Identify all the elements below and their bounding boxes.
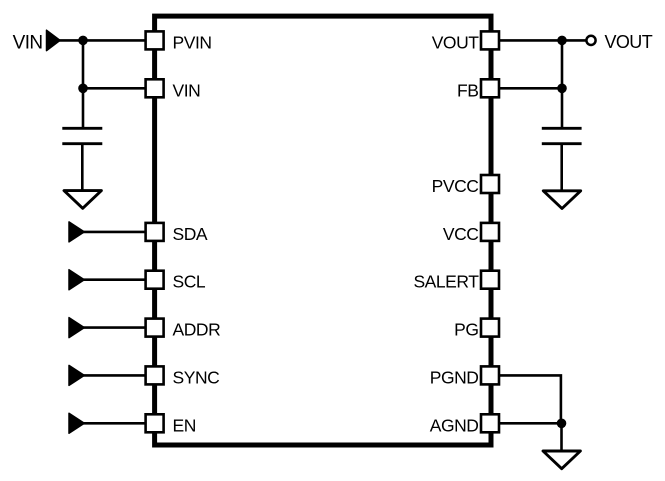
svg-text:PVIN: PVIN xyxy=(173,32,212,52)
wire xyxy=(83,374,146,377)
capacitor C2 xyxy=(542,128,582,143)
pin VOUT xyxy=(432,31,499,52)
svg-text:PG: PG xyxy=(454,320,478,340)
capacitor C1 xyxy=(62,128,102,143)
pin VIN xyxy=(146,79,201,100)
svg-text:PGND: PGND xyxy=(430,367,479,387)
svg-text:VIN: VIN xyxy=(13,32,43,53)
pin PVCC xyxy=(432,175,499,196)
pin SALERT xyxy=(413,271,499,292)
pin EN xyxy=(146,414,196,435)
wire xyxy=(560,144,563,191)
node VIN xyxy=(13,30,60,53)
input arrow SDA xyxy=(69,222,84,242)
wire xyxy=(499,375,561,423)
node VOUT xyxy=(586,32,652,52)
pin FB xyxy=(457,79,499,100)
input arrow ADDR xyxy=(69,318,84,338)
svg-text:EN: EN xyxy=(173,415,196,435)
wire xyxy=(83,231,146,234)
pin SDA xyxy=(146,223,208,244)
wire xyxy=(499,422,562,425)
wire xyxy=(83,87,146,90)
wire xyxy=(561,40,564,129)
junction xyxy=(557,419,567,429)
pin SYNC xyxy=(146,366,220,387)
ground xyxy=(64,191,101,209)
svg-text:ADDR: ADDR xyxy=(173,320,221,340)
svg-text:FB: FB xyxy=(457,80,478,100)
wire xyxy=(560,423,563,451)
svg-text:SDA: SDA xyxy=(173,224,208,244)
svg-text:VOUT: VOUT xyxy=(605,32,653,52)
pin PGND xyxy=(430,366,499,387)
ground xyxy=(543,191,580,209)
pin AGND xyxy=(430,414,499,435)
IC U1 xyxy=(155,16,491,445)
junction xyxy=(78,36,88,46)
svg-text:SALERT: SALERT xyxy=(413,272,479,292)
pin VCC xyxy=(443,223,499,244)
wire xyxy=(59,39,146,42)
input arrow EN xyxy=(69,413,84,433)
svg-text:VCC: VCC xyxy=(443,224,479,244)
pin ADDR xyxy=(146,319,221,340)
wire xyxy=(83,278,146,281)
junction xyxy=(557,84,567,94)
pin PG xyxy=(454,319,499,340)
svg-text:SYNC: SYNC xyxy=(173,367,220,387)
svg-text:SCL: SCL xyxy=(173,272,206,292)
junction xyxy=(78,84,88,94)
input arrow SYNC xyxy=(69,365,84,385)
svg-text:VIN: VIN xyxy=(173,80,201,100)
wire xyxy=(499,39,586,42)
pin PVIN xyxy=(146,31,212,52)
wire xyxy=(499,87,562,90)
ground xyxy=(543,451,580,469)
wire xyxy=(83,326,146,329)
wire xyxy=(82,40,85,129)
svg-text:AGND: AGND xyxy=(430,415,479,435)
wire xyxy=(81,144,84,191)
svg-text:PVCC: PVCC xyxy=(432,176,479,196)
wire xyxy=(83,422,146,425)
input arrow SCL xyxy=(69,270,84,290)
svg-text:VOUT: VOUT xyxy=(432,32,480,52)
junction xyxy=(557,36,567,46)
pin SCL xyxy=(146,271,206,292)
